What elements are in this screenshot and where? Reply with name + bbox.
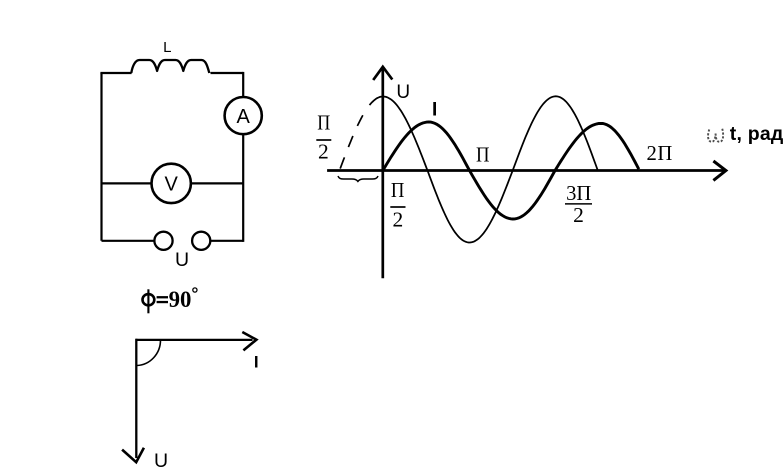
svg-text:I: I [254,352,259,371]
svg-text:Π: Π [476,143,490,167]
terminal right [192,232,210,250]
svg-text:Π: Π [391,178,405,202]
wire right upper segment [242,72,244,97]
svg-text:A: A [237,106,251,128]
svg-text:t, рад: t, рад [730,123,784,145]
graph y-axis [381,67,384,278]
curve U dashed segment (left of axis) [340,106,369,169]
wire middle-left segment [102,182,152,184]
svg-text:U: U [396,82,410,103]
svg-text:3Π: 3Π [566,181,591,205]
svg-text:I: I [432,100,437,121]
label Pi/2 (left of y-axis) [316,111,331,164]
svg-text:V: V [165,174,179,196]
phasor arrow I (horizontal) [136,339,253,341]
label Pi/2 (below origin) [390,178,405,231]
svg-text:L: L [163,39,171,56]
label 3Pi/2 [565,181,592,227]
svg-text:90: 90 [169,287,192,312]
curve I (thick sinusoid) [383,122,639,219]
svg-text:2: 2 [393,207,404,231]
wire bottom-left segment [102,240,155,242]
wire bottom-right segment [210,240,243,242]
graph x-axis [327,169,725,172]
wire top-left segment [100,72,131,74]
label phi=90deg [143,287,197,313]
ammeter A [225,97,262,134]
voltmeter V [152,164,191,203]
angle arc 90deg [137,340,161,366]
svg-text:U: U [175,249,189,271]
svg-text:Π: Π [317,111,330,135]
wire left side of circuit [100,73,102,241]
label omega (blurry) [708,129,723,142]
wire top-right segment [211,72,244,74]
wire middle-right segment [191,182,243,184]
svg-text:2Π: 2Π [646,141,673,165]
phasor arrow U (vertical) [135,339,137,458]
curve U (thin sinusoid) [370,96,598,242]
svg-text:2: 2 [573,203,584,227]
svg-text:2: 2 [318,139,329,163]
wire right lower segment [242,134,244,242]
brace under axis (pi/2 interval) [338,176,378,181]
inductor L [131,60,209,73]
svg-text:U: U [154,450,168,469]
terminal left [154,232,172,250]
